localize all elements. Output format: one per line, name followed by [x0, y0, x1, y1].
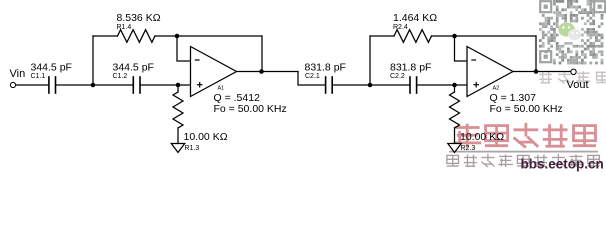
- wire output A1: [237, 71, 299, 73]
- svg-text:Vout: Vout: [567, 79, 589, 91]
- svg-text:C1.2: C1.2: [113, 73, 128, 80]
- svg-text:8.536 KΩ: 8.536 KΩ: [117, 12, 161, 24]
- plus sign A1: [197, 84, 203, 86]
- svg-text:10.00 KΩ: 10.00 KΩ: [460, 131, 504, 143]
- resistor R2.3: [454, 85, 456, 92]
- resistor R1.3: [177, 85, 179, 92]
- wire feedback down to output: [261, 36, 263, 72]
- wire R2.4 to output branch: [432, 35, 537, 37]
- svg-text:344.5 pF: 344.5 pF: [31, 62, 72, 74]
- capacitor C2.1: [326, 77, 333, 93]
- svg-text:Fo = 50.00 KHz: Fo = 50.00 KHz: [490, 103, 563, 115]
- wire rail to R1.4: [93, 35, 118, 37]
- wire feedback 2 down to output: [535, 36, 537, 72]
- svg-text:10.00 KΩ: 10.00 KΩ: [184, 131, 228, 143]
- svg-text:Fo = 50.00 KHz: Fo = 50.00 KHz: [214, 103, 287, 115]
- wire Vin to C1.1: [16, 84, 48, 86]
- node A: [91, 83, 96, 88]
- wire minus branch 2 down: [455, 36, 468, 61]
- svg-text:1.464 KΩ: 1.464 KΩ: [393, 12, 437, 24]
- op-amp input signs: [195, 60, 479, 88]
- plus sign A2: [473, 84, 479, 86]
- svg-text:Vin: Vin: [10, 68, 26, 80]
- ground 2: [448, 144, 461, 153]
- capacitor C2.2: [410, 77, 417, 93]
- watermark 微信联系: [539, 71, 606, 84]
- wire output A2 to Vout: [513, 71, 571, 73]
- svg-text:R1.3: R1.3: [185, 145, 200, 152]
- wire node A2 up: [369, 36, 371, 85]
- node B: [176, 83, 181, 88]
- svg-text:344.5 pF: 344.5 pF: [113, 62, 154, 74]
- svg-text:R2.4: R2.4: [393, 24, 408, 31]
- resistor R2.4: [394, 30, 432, 43]
- wire C1.1 to C1.2 via node A: [56, 84, 132, 86]
- wire C1.2 to op-amp plus: [141, 84, 191, 86]
- minus sign A2: [471, 59, 476, 61]
- watermark row 射频和天线设计专家: [447, 154, 600, 167]
- svg-text:A2: A2: [493, 86, 500, 92]
- terminal Vout: [571, 69, 576, 74]
- svg-text:831.8 pF: 831.8 pF: [305, 62, 346, 74]
- svg-text:C2.2: C2.2: [390, 73, 405, 80]
- capacitor C1.1: [49, 77, 56, 93]
- svg-text:A1: A1: [218, 86, 225, 92]
- svg-text:bbs.eetop.cn: bbs.eetop.cn: [521, 157, 604, 172]
- ground: [171, 144, 184, 153]
- terminal Vin: [10, 82, 15, 87]
- svg-text:R1.4: R1.4: [117, 24, 132, 31]
- capacitor C1.2: [133, 77, 140, 93]
- svg-text:C1.1: C1.1: [31, 73, 46, 80]
- svg-text:831.8 pF: 831.8 pF: [390, 62, 431, 74]
- node A2: [368, 83, 373, 88]
- wire jog down to stage 2: [298, 72, 325, 86]
- node B2: [452, 83, 457, 88]
- wire rail2 to R2.4: [370, 35, 394, 37]
- wire minus branch down: [177, 36, 191, 61]
- node output 2: [534, 69, 539, 74]
- op-amp A2: [467, 47, 513, 97]
- minus sign A1: [195, 59, 200, 61]
- watermark red banner 易迪拓培训: [454, 123, 597, 148]
- wire R1.4 to output branch: [155, 35, 262, 37]
- node minus tap 1: [175, 34, 180, 39]
- junction dots: [91, 34, 539, 88]
- op-amp A1: [191, 47, 237, 97]
- watermark underline: [449, 151, 598, 153]
- svg-text:C2.1: C2.1: [305, 73, 320, 80]
- wire node A up: [92, 36, 94, 85]
- wire C2.2 to op-amp 2 plus: [417, 84, 467, 86]
- node minus tap 2: [452, 34, 457, 39]
- resistor R1.4: [118, 30, 156, 43]
- svg-text:R2.3: R2.3: [461, 145, 476, 152]
- wire C2.1 to C2.2 via node A2: [333, 84, 409, 86]
- node output 1: [259, 69, 264, 74]
- watermark QR code: [539, 0, 605, 64]
